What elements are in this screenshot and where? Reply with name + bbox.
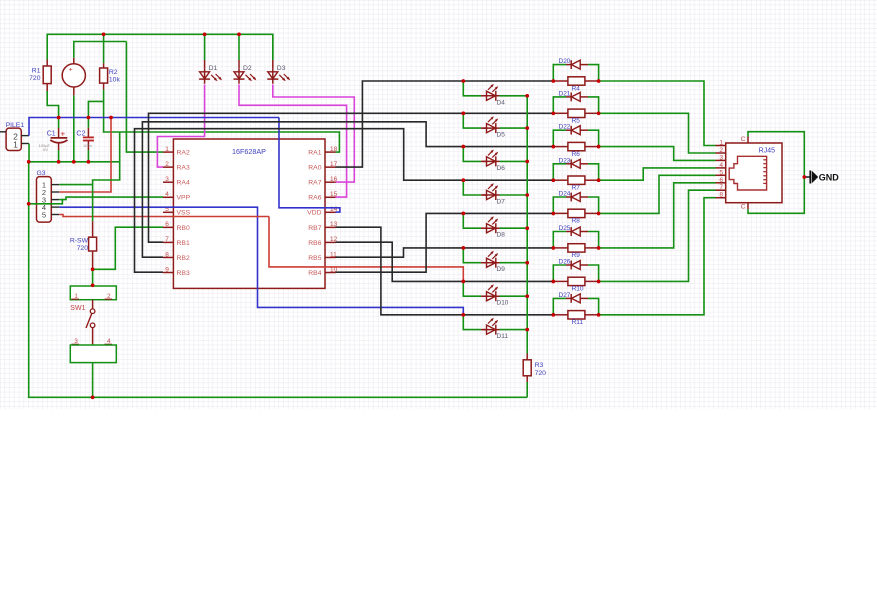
IC pin 10 RB4 <box>325 272 336 274</box>
wire ground bus <box>29 144 120 162</box>
svg-text:1: 1 <box>165 146 169 153</box>
svg-text:R5: R5 <box>572 118 581 125</box>
svg-text:4: 4 <box>165 191 169 198</box>
IC pin 17 RA0 <box>325 166 336 168</box>
junction ground bus C1 <box>57 160 61 164</box>
RJ45 pin 6 <box>716 182 726 184</box>
wire circle drop to RA2 <box>126 42 163 153</box>
wire RJ45 shield to GND <box>748 132 804 214</box>
svg-text:C1: C1 <box>47 130 56 137</box>
wire RB1 bus to D4 row <box>149 113 554 242</box>
svg-text:720: 720 <box>29 75 41 82</box>
svg-text:5: 5 <box>42 210 46 219</box>
wire blue bus to VDD pin14 <box>279 118 340 213</box>
wire G3 pin1 green <box>59 184 92 186</box>
svg-text:1: 1 <box>719 140 723 147</box>
diode D27 <box>553 298 566 314</box>
svg-text:R10: R10 <box>572 286 584 293</box>
svg-text:RA3: RA3 <box>177 165 190 172</box>
svg-text:D23: D23 <box>559 157 571 164</box>
wire VDD blue bus <box>29 118 279 136</box>
svg-text:6: 6 <box>165 221 169 228</box>
wire D4 output to RJ45 pin 1 <box>599 81 716 146</box>
svg-text:1: 1 <box>13 140 18 150</box>
diode D20 <box>553 65 566 81</box>
wire RB3 bus to D7 row <box>135 129 554 273</box>
svg-text:D25: D25 <box>559 225 571 232</box>
wire D3 to RA7 magenta <box>273 85 355 183</box>
LED D10 <box>463 281 481 296</box>
wire D11 output to RJ45 pin 8 <box>599 198 716 315</box>
wire D5 output to RJ45 pin 2 <box>599 113 716 153</box>
RJ45 pin 2 <box>716 152 726 154</box>
svg-text:D3: D3 <box>277 65 286 72</box>
junction LED bus D8 <box>525 226 529 230</box>
wire D1 to RA3 magenta <box>157 85 204 168</box>
LED D5 <box>463 113 481 128</box>
RJ45 pin 1 <box>716 145 726 147</box>
speaker SG1 <box>62 64 85 87</box>
resistor R11 <box>553 314 568 316</box>
junction R-SW bottom <box>91 268 95 272</box>
wire G3 pin3 from left rail <box>29 200 63 204</box>
wire RB6 to D10 row <box>336 242 554 281</box>
svg-text:RB4: RB4 <box>308 270 321 277</box>
IC pin 13 RB7 <box>325 226 336 228</box>
wire left rail <box>29 162 528 397</box>
svg-text:+: + <box>69 67 73 74</box>
wire G3 pin4 blue to D11 row <box>59 207 463 315</box>
junction LED bus D6 <box>525 160 529 164</box>
svg-text:3: 3 <box>719 154 723 161</box>
svg-text:10k: 10k <box>109 77 121 84</box>
resistor R1 <box>46 60 48 67</box>
svg-text:D5: D5 <box>497 132 506 139</box>
svg-text:4: 4 <box>719 162 723 169</box>
IC U1 16F628AP body <box>173 139 325 288</box>
junction R11 right <box>597 313 601 317</box>
svg-text:SW1: SW1 <box>70 305 85 312</box>
svg-text:D8: D8 <box>497 232 506 239</box>
wire RA0 to D4 row <box>336 81 554 167</box>
svg-text:RA7: RA7 <box>308 180 321 187</box>
junction R9 left <box>552 246 556 250</box>
svg-text:D21: D21 <box>559 90 571 97</box>
svg-text:16F628AP: 16F628AP <box>232 147 266 156</box>
svg-text:D6: D6 <box>497 165 506 172</box>
IC pin 15 RA6 <box>325 196 336 198</box>
diode D21 <box>553 97 566 113</box>
RJ45 pin 3 <box>716 159 726 161</box>
svg-text:RA1: RA1 <box>308 150 321 157</box>
svg-text:D10: D10 <box>497 300 509 307</box>
IC pin 18 RA1 <box>325 151 336 153</box>
wire C2 top step <box>88 101 103 117</box>
svg-text:RA0: RA0 <box>308 165 321 172</box>
svg-text:R3: R3 <box>535 362 544 369</box>
LED D1 <box>204 34 206 60</box>
resistor R7 <box>553 179 568 181</box>
diode D25 <box>553 232 566 248</box>
junction R5 right <box>597 112 601 116</box>
resistor R6 <box>553 146 568 148</box>
junction blue bus G3 feed <box>109 116 113 120</box>
wire G3 pin2 red to blue bus <box>59 118 111 193</box>
svg-text:R8: R8 <box>572 218 581 225</box>
junction row D11 <box>462 313 466 317</box>
IC pin 6 RB0 <box>163 226 173 228</box>
wire D6 output to RJ45 pin 3 <box>599 147 716 161</box>
LED D9 <box>463 248 481 263</box>
svg-text:R7: R7 <box>572 185 581 192</box>
junction top bus D1 <box>203 33 207 37</box>
diode D24 <box>553 197 566 213</box>
RJ45 pin 8 <box>716 197 726 199</box>
svg-text:RA6: RA6 <box>308 195 321 202</box>
junction row D9 <box>462 246 466 250</box>
junction R4 right <box>597 79 601 83</box>
connector RJ45 body <box>726 143 782 203</box>
IC pin 14 VDD <box>325 211 336 213</box>
wire D7 output to RJ45 pin 4 <box>599 168 716 180</box>
IC pin 5 VSS <box>163 211 173 213</box>
junction bottom rail SW1 <box>91 396 95 400</box>
svg-text:C: C <box>741 204 746 211</box>
svg-text:VPP: VPP <box>177 195 191 202</box>
svg-text:D11: D11 <box>497 333 509 340</box>
junction top bus D2 <box>237 33 241 37</box>
IC pin 8 RB2 <box>163 256 173 258</box>
LED D4 <box>463 81 481 96</box>
junction LED bus D10 <box>525 294 529 298</box>
resistor R2 <box>103 34 105 63</box>
svg-text:720: 720 <box>77 245 89 252</box>
IC pin 2 RA3 <box>163 166 173 168</box>
svg-text:RB1: RB1 <box>177 240 190 247</box>
RJ45 pin C top <box>747 137 749 144</box>
ground GND <box>804 176 809 178</box>
RJ45 pin C bottom <box>747 203 749 210</box>
switch SW1 top body <box>70 286 116 300</box>
svg-text:8: 8 <box>165 251 169 258</box>
wire RB7 to D11 row <box>336 227 554 315</box>
junction R7 right <box>597 178 601 182</box>
wire R1 bottom to blue bus <box>47 91 58 118</box>
LED D6 <box>463 147 481 162</box>
junction blue bus C2 <box>87 116 91 120</box>
resistor R10 <box>553 280 568 282</box>
svg-text:R4: R4 <box>572 85 581 92</box>
svg-text:D20: D20 <box>559 58 571 65</box>
svg-text:5: 5 <box>719 169 723 176</box>
junction ground bus speaker <box>72 160 76 164</box>
junction R11 left <box>552 313 556 317</box>
IC pin 12 RB6 <box>325 241 336 243</box>
RJ45 pin 5 <box>716 174 726 176</box>
wire R-SW bottom to RB0 <box>93 227 163 269</box>
junction R7 left <box>552 178 556 182</box>
IC pin 4 VPP <box>163 196 173 198</box>
junction R6 right <box>597 145 601 149</box>
wire SW1 to bottom rail <box>92 363 94 398</box>
svg-text:720: 720 <box>535 370 547 377</box>
junction dots overlay <box>27 33 806 400</box>
junction R8 right <box>597 212 601 216</box>
junction row D10 <box>462 280 466 284</box>
svg-text:RB0: RB0 <box>177 225 190 232</box>
svg-text:D22: D22 <box>559 124 571 131</box>
wire RB2 bus to D6 row <box>142 122 553 257</box>
junction ground bus left vertical <box>27 160 31 164</box>
svg-text:R1: R1 <box>32 68 41 75</box>
junction R10 left <box>552 280 556 284</box>
IC pin 1 RA2 <box>163 151 173 153</box>
svg-text:7: 7 <box>719 184 723 191</box>
svg-text:D24: D24 <box>559 191 571 198</box>
svg-text:6: 6 <box>719 177 723 184</box>
junction R8 left <box>552 212 556 216</box>
diode D22 <box>553 130 566 146</box>
junction R6 left <box>552 145 556 149</box>
svg-text:RB3: RB3 <box>177 270 190 277</box>
RJ45 pin 7 <box>716 189 726 191</box>
wire D10 output to RJ45 pin 7 <box>599 190 716 281</box>
IC pin 7 RB1 <box>163 241 173 243</box>
svg-text:R9: R9 <box>572 252 581 259</box>
wire R-SW to SW1 <box>92 269 94 286</box>
svg-text:RB6: RB6 <box>308 240 321 247</box>
svg-text:C: C <box>741 136 746 143</box>
svg-text:RB7: RB7 <box>308 225 321 232</box>
junction LED bus D9 <box>525 261 529 265</box>
LED D3 <box>272 34 274 60</box>
junction LED bus D11 <box>525 328 529 332</box>
wire net to R-SW top <box>93 132 120 221</box>
svg-text:R2: R2 <box>109 69 118 76</box>
resistor R4 <box>553 80 568 82</box>
resistor R-SW <box>92 221 94 237</box>
junction ground bus C2 <box>87 160 91 164</box>
IC pin 11 RB5 <box>325 256 336 258</box>
wire net bus to RA1 <box>103 132 340 152</box>
junction R5 left <box>552 112 556 116</box>
svg-text:2: 2 <box>165 161 169 168</box>
junction top bus R2 <box>102 33 106 37</box>
junction LED bus D7 <box>525 193 529 197</box>
junction row D6 <box>462 145 466 149</box>
resistor R9 <box>553 247 568 249</box>
svg-text:GND: GND <box>819 172 840 182</box>
svg-text:VSS: VSS <box>177 210 191 217</box>
IC pin 16 RA7 <box>325 181 336 183</box>
wire RB5 to D9 row <box>336 248 554 257</box>
LED D11 <box>463 315 481 330</box>
svg-text:D1: D1 <box>209 65 218 72</box>
svg-text:D27: D27 <box>559 292 571 299</box>
svg-text:9: 9 <box>165 266 169 273</box>
junction GND <box>803 175 807 179</box>
junction R9 right <box>597 246 601 250</box>
svg-text:3: 3 <box>165 176 169 183</box>
junction left rail G3 pin3 tap <box>27 202 31 206</box>
RJ45 pin 4 <box>716 167 726 169</box>
svg-text:D4: D4 <box>497 99 506 106</box>
resistor R8 <box>553 212 568 214</box>
wire R2 bottom <box>103 90 105 132</box>
svg-text:VDD: VDD <box>307 210 321 217</box>
resistor R5 <box>553 112 568 114</box>
wire G3 pin3 to VPP <box>62 197 163 200</box>
svg-text:R-SW: R-SW <box>70 238 89 245</box>
junction row D5 <box>462 112 466 116</box>
wire top supply bus <box>47 34 273 59</box>
IC pin 9 RB3 <box>163 272 173 274</box>
connector RJ45 jack symbol <box>729 156 766 190</box>
junction LED bus D4 <box>525 94 529 98</box>
schematic canvas grid <box>0 0 877 409</box>
svg-text:6V: 6V <box>43 147 48 152</box>
junction row D8 <box>462 212 466 216</box>
diode D23 <box>553 164 566 180</box>
svg-text:100n: 100n <box>83 143 92 148</box>
svg-text:D26: D26 <box>559 259 571 266</box>
junction R4 left <box>552 79 556 83</box>
svg-text:RA4: RA4 <box>177 180 190 187</box>
svg-text:8: 8 <box>719 192 723 199</box>
wire D8 output to RJ45 pin 5 <box>599 175 716 213</box>
LED D7 <box>463 180 481 195</box>
wire LED cathode bus <box>526 96 528 354</box>
junction R10 right <box>597 280 601 284</box>
svg-text:R11: R11 <box>572 319 584 326</box>
wire D9 output to RJ45 pin 6 <box>599 183 716 248</box>
junction LED bus D5 <box>525 126 529 130</box>
resistor R3 <box>526 354 528 360</box>
svg-text:D7: D7 <box>497 199 506 206</box>
junction blue bus C1 <box>57 116 61 120</box>
wire VSS red to D10 row <box>269 217 463 282</box>
svg-text:7: 7 <box>165 236 169 243</box>
wire G3 pin5 red VSS <box>59 215 269 217</box>
svg-text:RB2: RB2 <box>177 255 190 262</box>
svg-text:RB5: RB5 <box>308 255 321 262</box>
wire RB4 to D8 row <box>336 213 554 272</box>
wire speaker bottom to ground bus <box>73 95 75 161</box>
IC pin 3 RA4 <box>163 181 173 183</box>
svg-text:RA2: RA2 <box>177 150 190 157</box>
LED D8 <box>463 213 481 228</box>
junction SW1 top <box>91 284 95 288</box>
diode D26 <box>553 265 566 281</box>
LED D2 <box>238 34 240 60</box>
svg-text:2: 2 <box>719 147 723 154</box>
junction row D4 <box>462 79 466 83</box>
svg-text:D2: D2 <box>243 65 252 72</box>
svg-text:C2: C2 <box>76 130 85 137</box>
switch SW1 contacts <box>92 300 94 309</box>
svg-text:+: + <box>61 129 66 138</box>
svg-text:R6: R6 <box>572 151 581 158</box>
junction row D7 <box>462 178 466 182</box>
wire D2 to RA6 magenta <box>239 85 347 198</box>
svg-text:D9: D9 <box>497 266 506 273</box>
wire speaker top <box>74 42 127 58</box>
svg-text:RJ45: RJ45 <box>759 148 775 155</box>
